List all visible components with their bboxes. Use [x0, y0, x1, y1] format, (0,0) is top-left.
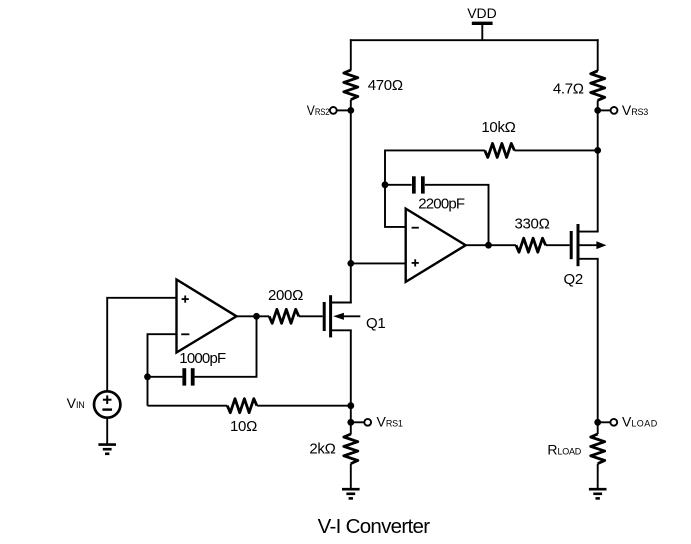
node VRS1	[347, 414, 402, 430]
svg-text:2kΩ: 2kΩ	[309, 441, 335, 458]
transistor Q1	[324, 295, 385, 337]
wire U1 output	[237, 315, 270, 317]
resistor RLOAD	[547, 434, 604, 464]
wire VIN to ground	[106, 418, 108, 445]
svg-text:10Ω: 10Ω	[230, 418, 257, 435]
resistor 200 ohm	[268, 287, 303, 323]
node U1 output junction	[253, 313, 260, 320]
wire U1 minus-in loop	[148, 334, 177, 406]
wire 10k right	[514, 149, 597, 151]
ground under RLOAD	[589, 489, 607, 498]
svg-text:RLOAD: RLOAD	[547, 442, 581, 458]
svg-text:470Ω: 470Ω	[368, 77, 403, 94]
svg-text:330Ω: 330Ω	[514, 216, 549, 233]
wire cap 1000pF right lead	[195, 316, 257, 377]
svg-text:4.7Ω: 4.7Ω	[553, 81, 584, 98]
resistor 10 ohm	[227, 399, 257, 435]
resistor 2k ohm	[309, 434, 357, 464]
svg-text:VRS2: VRS2	[307, 102, 330, 118]
svg-text:200Ω: 200Ω	[268, 287, 303, 304]
wire 10 ohm to node	[257, 405, 351, 407]
wire 200 to Q1 gate	[299, 315, 323, 317]
svg-text:2200pF: 2200pF	[418, 196, 465, 213]
resistor 330 ohm	[514, 216, 549, 253]
node U2 plus-in tap	[347, 260, 354, 267]
node VLOAD	[594, 414, 657, 430]
wire left column middle	[350, 100, 352, 304]
wire U2 plus-in	[351, 262, 406, 264]
resistor 10k ohm	[481, 119, 515, 157]
node VRS3	[594, 102, 648, 118]
svg-text:10kΩ: 10kΩ	[481, 119, 515, 136]
wire cap 1000pF left lead	[148, 376, 183, 378]
svg-text:V-I Converter: V-I Converter	[318, 515, 431, 538]
wire left column upper	[350, 39, 352, 70]
svg-text:VIN: VIN	[67, 395, 85, 411]
node 10 ohm junction	[347, 402, 354, 409]
resistor 4.7 ohm	[553, 71, 605, 101]
svg-text:VRS3: VRS3	[622, 102, 648, 118]
wire cap 2200pF left lead	[385, 184, 412, 186]
svg-text:Q2: Q2	[564, 271, 583, 288]
wire top rail	[350, 39, 599, 41]
wire Q1 source column	[350, 330, 352, 434]
node U2 output junction	[485, 242, 492, 249]
transistor Q2	[564, 224, 607, 288]
ground under 2k	[342, 489, 360, 498]
node 10k tap junction	[594, 147, 601, 154]
op-amp U1	[177, 280, 237, 353]
svg-text:VRS1: VRS1	[377, 414, 403, 430]
wire right column lower	[597, 259, 599, 434]
node cap 2200pF tap junction	[382, 181, 389, 188]
wire bottom rail 10 ohm	[148, 405, 228, 407]
wire right column middle	[597, 100, 599, 231]
node VRS2	[307, 102, 354, 118]
node cap 1000pF tap junction	[144, 373, 151, 380]
wire 2k to ground	[350, 464, 352, 490]
wire feedback left loop	[385, 150, 485, 227]
ground under VIN	[98, 445, 116, 454]
wire cap 2200pF right lead	[425, 185, 489, 245]
op-amp U2	[406, 209, 466, 282]
capacitor 1000pF	[179, 350, 226, 385]
svg-text:VLOAD: VLOAD	[622, 414, 658, 430]
power VDD	[467, 5, 497, 40]
capacitor 2200pF	[414, 176, 465, 212]
wire 330 to Q2 gate	[546, 244, 570, 246]
svg-text:1000pF: 1000pF	[179, 350, 226, 367]
resistor 470 ohm	[344, 70, 403, 100]
svg-text:VDD: VDD	[467, 5, 497, 21]
svg-text:Q1: Q1	[366, 315, 385, 332]
wire RLOAD to ground	[597, 464, 599, 490]
wire U2 output	[466, 244, 516, 246]
wire right column upper	[597, 39, 599, 71]
source VIN	[67, 391, 121, 417]
wire U1 plus-in to VIN	[107, 298, 176, 391]
